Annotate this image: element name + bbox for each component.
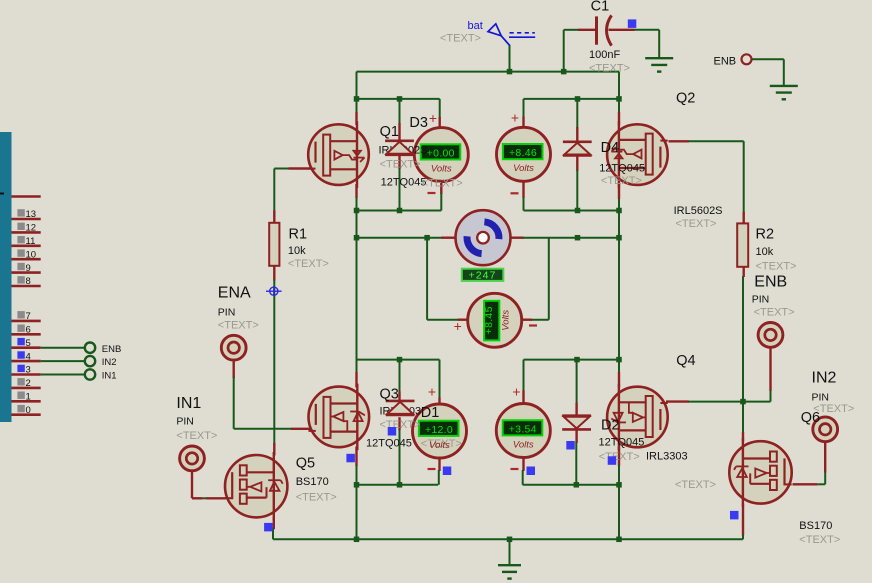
svg-text:bat: bat <box>468 20 483 32</box>
junction V845/motor row <box>424 235 430 241</box>
wire D2 bottom lead <box>575 429 577 443</box>
junction nodeB/motor row <box>616 235 622 241</box>
svg-text:Q6: Q6 <box>801 410 820 426</box>
junction D1/mid row <box>397 357 403 363</box>
svg-text:+: + <box>429 110 437 126</box>
svg-text:+12.0: +12.0 <box>425 424 453 436</box>
junction nodeB/mid row <box>616 357 622 363</box>
svg-text:<TEXT>: <TEXT> <box>756 261 797 273</box>
junction Q3/bottom rail <box>354 537 360 543</box>
ground bottom <box>498 565 521 578</box>
wire V845 right lead <box>548 238 550 320</box>
resistor R2 <box>737 223 748 266</box>
svg-text:10: 10 <box>26 249 37 260</box>
wire D2 top lead <box>576 360 578 404</box>
svg-text:10k: 10k <box>288 245 306 257</box>
wire R2 bottom to ENB junction <box>743 267 745 277</box>
svg-text:<TEXT>: <TEXT> <box>176 430 217 442</box>
transistor Q1 <box>308 121 369 188</box>
svg-text:+: + <box>428 384 436 400</box>
terminal IN2 <box>85 356 95 366</box>
junction Q4/bottom rail <box>616 537 622 543</box>
V5 minus mark <box>529 324 537 326</box>
wire V354 top lead <box>523 360 525 392</box>
svg-text:R2: R2 <box>756 226 775 242</box>
wire rail C right segment <box>524 210 620 212</box>
svg-text:Volts: Volts <box>501 310 512 331</box>
pin IN1 <box>180 446 205 471</box>
wire V845 left lead <box>426 238 428 320</box>
svg-text:PIN: PIN <box>176 416 194 428</box>
pin ENA <box>221 335 246 360</box>
svg-text:+: + <box>512 384 520 400</box>
svg-text:ENB: ENB <box>714 55 737 67</box>
svg-text:IN1: IN1 <box>102 371 117 382</box>
svg-text:PIN: PIN <box>752 294 770 306</box>
wire Q6 source to bottom rail <box>742 504 744 536</box>
junction D4/railC <box>575 208 581 214</box>
svg-text:12TQ045: 12TQ045 <box>599 163 645 175</box>
voltmeter V4 +3.54 <box>496 404 550 458</box>
wire rail B left segment <box>357 98 440 100</box>
voltmeter V1 +0.00 <box>414 128 468 182</box>
svg-text:BS170: BS170 <box>296 476 329 488</box>
wire mid row right y360 <box>524 359 620 361</box>
svg-text:<TEXT>: <TEXT> <box>675 479 716 491</box>
svg-text:100nF: 100nF <box>589 49 620 61</box>
svg-text:2: 2 <box>26 378 31 389</box>
wire C1 left lead <box>564 29 578 31</box>
wire IN1 pin lead <box>191 470 193 498</box>
svg-text:<TEXT>: <TEXT> <box>799 534 840 546</box>
connector pin 10 <box>12 249 41 260</box>
pin ENB <box>758 323 783 348</box>
svg-text:11: 11 <box>26 236 36 247</box>
wire V2 top lead <box>523 99 525 118</box>
svg-text:<TEXT>: <TEXT> <box>380 419 421 431</box>
svg-text:<TEXT>: <TEXT> <box>599 451 640 463</box>
svg-text:12TQ045: 12TQ045 <box>381 176 427 188</box>
wire motor row left <box>357 237 443 239</box>
svg-text:BS170: BS170 <box>799 520 832 532</box>
junction ENB net <box>740 399 746 405</box>
wire D1 bottom lead <box>398 417 400 430</box>
svg-text:9: 9 <box>26 263 31 274</box>
board edge tick <box>0 193 4 195</box>
wire node B vertical <box>618 198 620 373</box>
connector pin 5 <box>12 338 41 349</box>
svg-text:<TEXT>: <TEXT> <box>589 62 630 74</box>
svg-text:IN1: IN1 <box>176 395 201 412</box>
wire Q4 source to bottom <box>618 447 620 467</box>
voltmeter V5 +8.45 (rotated) <box>468 293 522 347</box>
junction bat/railA <box>507 69 513 75</box>
svg-text:Q1: Q1 <box>380 124 399 140</box>
marker blue Q6 <box>730 511 739 520</box>
diode D4 <box>563 142 592 156</box>
marker blue D1 <box>388 427 397 436</box>
svg-text:C1: C1 <box>591 0 610 15</box>
wire V12 top lead <box>439 360 441 399</box>
V3 minus mark <box>428 468 436 470</box>
voltmeter V2 +8.46 <box>497 127 551 181</box>
svg-text:0: 0 <box>26 405 31 416</box>
svg-text:8: 8 <box>26 276 31 287</box>
svg-text:+3.54: +3.54 <box>509 423 537 435</box>
svg-text:D4: D4 <box>601 140 620 156</box>
svg-text:13: 13 <box>26 209 37 220</box>
svg-text:<TEXT>: <TEXT> <box>218 320 259 332</box>
wire D4 bottom lead <box>576 156 578 172</box>
svg-text:Q2: Q2 <box>676 91 695 107</box>
wire top rail A <box>357 71 620 73</box>
wire pin4 to IN2 terminal <box>41 360 85 362</box>
svg-text:Volts: Volts <box>429 440 450 451</box>
V4 minus mark <box>511 468 519 470</box>
ground near C1 <box>645 58 673 71</box>
svg-text:<TEXT>: <TEXT> <box>440 33 481 45</box>
wire pin3 to IN1 terminal <box>41 374 85 376</box>
diode D1 <box>386 401 415 415</box>
wire ground drop bottom <box>509 539 511 565</box>
svg-text:ENA: ENA <box>218 285 251 302</box>
V2 minus mark <box>511 192 519 194</box>
svg-text:Q3: Q3 <box>380 387 399 403</box>
svg-text:+247: +247 <box>469 270 497 282</box>
pin IN2 <box>813 417 838 442</box>
connector board edge <box>0 132 12 422</box>
connector pin 3 <box>12 365 41 376</box>
svg-text:12: 12 <box>26 223 37 234</box>
junction C1/railA <box>561 69 567 75</box>
junction Q3 source/low row <box>354 482 360 488</box>
svg-text:Volts: Volts <box>513 439 534 450</box>
transistor Q4 <box>607 384 668 451</box>
diode D3 <box>385 141 414 155</box>
wire rail A right drop <box>618 72 620 99</box>
marker blue V3 <box>443 467 452 476</box>
resistor R1 <box>269 223 279 266</box>
diode D2 <box>562 416 591 430</box>
svg-text:6: 6 <box>26 325 31 336</box>
wire IN2 pin lead <box>824 441 826 473</box>
svg-text:+8.45: +8.45 <box>483 306 495 334</box>
wire V1 top lead <box>439 99 441 118</box>
wire rail C left segment <box>357 210 442 212</box>
junction D2/mid row <box>574 357 580 363</box>
junction Q4 source/low row <box>616 482 622 488</box>
svg-text:R1: R1 <box>289 226 308 242</box>
connector pin 12 <box>12 223 41 234</box>
motor M1 <box>456 210 511 265</box>
wire low row left y485 <box>357 484 439 486</box>
wire bottom rail <box>273 538 743 540</box>
svg-text:Q4: Q4 <box>676 353 695 369</box>
svg-text:<TEXT>: <TEXT> <box>754 307 795 319</box>
svg-text:ENB: ENB <box>102 344 122 355</box>
svg-text:IRL5602S: IRL5602S <box>674 205 723 217</box>
wire Q2 gate net <box>669 140 689 142</box>
svg-text:IRL3303: IRL3303 <box>646 451 688 463</box>
junction railB right end <box>616 96 622 102</box>
motor rpm display +247 <box>462 269 504 282</box>
junction D1/low row <box>397 482 403 488</box>
transistor Q2 <box>607 121 668 188</box>
transistor Q5 <box>225 452 287 520</box>
svg-text:IN2: IN2 <box>102 357 117 368</box>
svg-text:<TEXT>: <TEXT> <box>288 258 329 270</box>
connector pin 4 <box>12 351 41 362</box>
svg-text:PIN: PIN <box>812 391 830 403</box>
svg-text:Volts: Volts <box>431 163 452 174</box>
svg-text:3: 3 <box>26 365 31 376</box>
svg-text:12TQ045: 12TQ045 <box>366 437 412 449</box>
transistor Q6 <box>729 438 791 506</box>
wire rail B right segment <box>524 98 620 100</box>
marker blue C1 <box>628 19 637 28</box>
wire low row right y485 <box>523 484 619 486</box>
wire ENA pin lead <box>232 360 234 379</box>
wire bat probe drop <box>509 45 511 72</box>
marker blue D2 <box>566 441 575 450</box>
connector pin 6 <box>12 325 41 336</box>
junction nodeA/motor row <box>354 235 360 241</box>
junction railB left end <box>354 96 360 102</box>
svg-text:D1: D1 <box>421 405 440 421</box>
terminal ENB <box>85 343 95 353</box>
wire rail A left drop <box>356 72 358 99</box>
wire D4 top lead <box>576 99 578 128</box>
wire ENB junction to Q6 drain <box>742 402 744 433</box>
marker blue Q3 <box>346 454 355 463</box>
junction nodeB/railC <box>616 208 622 214</box>
svg-text:D2: D2 <box>601 418 620 434</box>
wire mid row left y360 <box>357 359 440 361</box>
connector pin 9 <box>12 263 41 274</box>
junction nodeA/railC <box>354 208 360 214</box>
svg-text:<TEXT>: <TEXT> <box>676 218 717 230</box>
svg-text:+8.46: +8.46 <box>509 147 537 159</box>
svg-text:<TEXT>: <TEXT> <box>296 492 337 504</box>
connector pin 1 <box>12 392 41 403</box>
svg-text:ENB: ENB <box>754 273 787 290</box>
terminal ENB top <box>742 54 752 64</box>
svg-text:5: 5 <box>26 338 31 349</box>
wire ENB pin lead <box>769 347 771 392</box>
wire Q5 source to bottom rail <box>273 518 275 530</box>
connector pin 13 <box>12 209 41 220</box>
svg-text:D3: D3 <box>409 115 428 131</box>
wire C1 right lead <box>634 29 659 31</box>
probe bat <box>488 24 535 46</box>
svg-text:10k: 10k <box>756 246 774 258</box>
svg-text:+: + <box>511 110 519 126</box>
node marker ENA wire <box>266 286 282 296</box>
connector pin 11 <box>12 236 41 247</box>
connector pin stub (unnumbered) <box>12 195 41 198</box>
svg-text:+0.00: +0.00 <box>427 147 455 159</box>
terminal IN1 <box>85 369 95 379</box>
wire D3 bottom lead <box>398 156 400 169</box>
connector pin 2 <box>12 378 41 389</box>
wire V2 bottom lead <box>522 181 524 198</box>
wire D3 top lead <box>399 99 401 124</box>
wire pin5 to ENB terminal <box>41 347 85 349</box>
marker blue V4 <box>527 467 536 476</box>
connector pin 0 <box>12 405 41 416</box>
svg-text:7: 7 <box>26 311 31 322</box>
V1 minus mark <box>428 192 436 194</box>
svg-text:Q5: Q5 <box>296 455 315 471</box>
wire Q1 source to node A <box>355 184 357 198</box>
wire V1 bottom lead <box>440 182 442 194</box>
wire motor row right <box>510 236 524 238</box>
svg-text:IN2: IN2 <box>812 369 837 386</box>
voltmeter V3 +12.0 <box>413 404 467 458</box>
wire V354 bottom lead <box>522 458 524 472</box>
junction D4/railB <box>575 96 581 102</box>
wire R1 bottom to Q5 drain <box>273 266 275 281</box>
svg-text:4: 4 <box>26 351 31 362</box>
wire V12 bottom lead <box>438 457 440 471</box>
svg-text:Volts: Volts <box>513 163 534 174</box>
junction ground/bottom rail <box>507 537 513 543</box>
svg-text:<TEXT>: <TEXT> <box>380 159 421 171</box>
wire Q1 drain lead <box>356 99 358 113</box>
wire node A vertical <box>356 211 358 374</box>
junction D3/railB <box>397 96 403 102</box>
svg-text:12TQ045: 12TQ045 <box>599 437 645 449</box>
junction D3/railC <box>397 208 403 214</box>
svg-text:PIN: PIN <box>218 306 236 318</box>
connector pin 7 <box>12 311 41 322</box>
wire Q4 gate lead <box>666 400 689 402</box>
wire Q2 drain lead <box>618 99 620 113</box>
transistor Q3 <box>309 384 370 451</box>
svg-text:<TEXT>: <TEXT> <box>422 177 463 189</box>
svg-text:+: + <box>454 318 462 334</box>
capacitor C1 <box>578 15 635 45</box>
svg-text:<TEXT>: <TEXT> <box>601 175 642 187</box>
junction D2/low row <box>574 482 580 488</box>
wire R1 gate net <box>274 168 289 170</box>
wire D1 top lead <box>399 360 401 393</box>
marker blue Q4 <box>608 456 617 465</box>
ground near ENB top <box>770 86 798 99</box>
junction motor row mid <box>575 235 581 241</box>
connector pin 8 <box>12 276 41 287</box>
wire ENB top terminal to ground <box>752 58 784 60</box>
marker blue Q5 <box>264 523 273 532</box>
svg-text:1: 1 <box>26 392 31 403</box>
wire Q3 source to bottom <box>355 447 357 467</box>
